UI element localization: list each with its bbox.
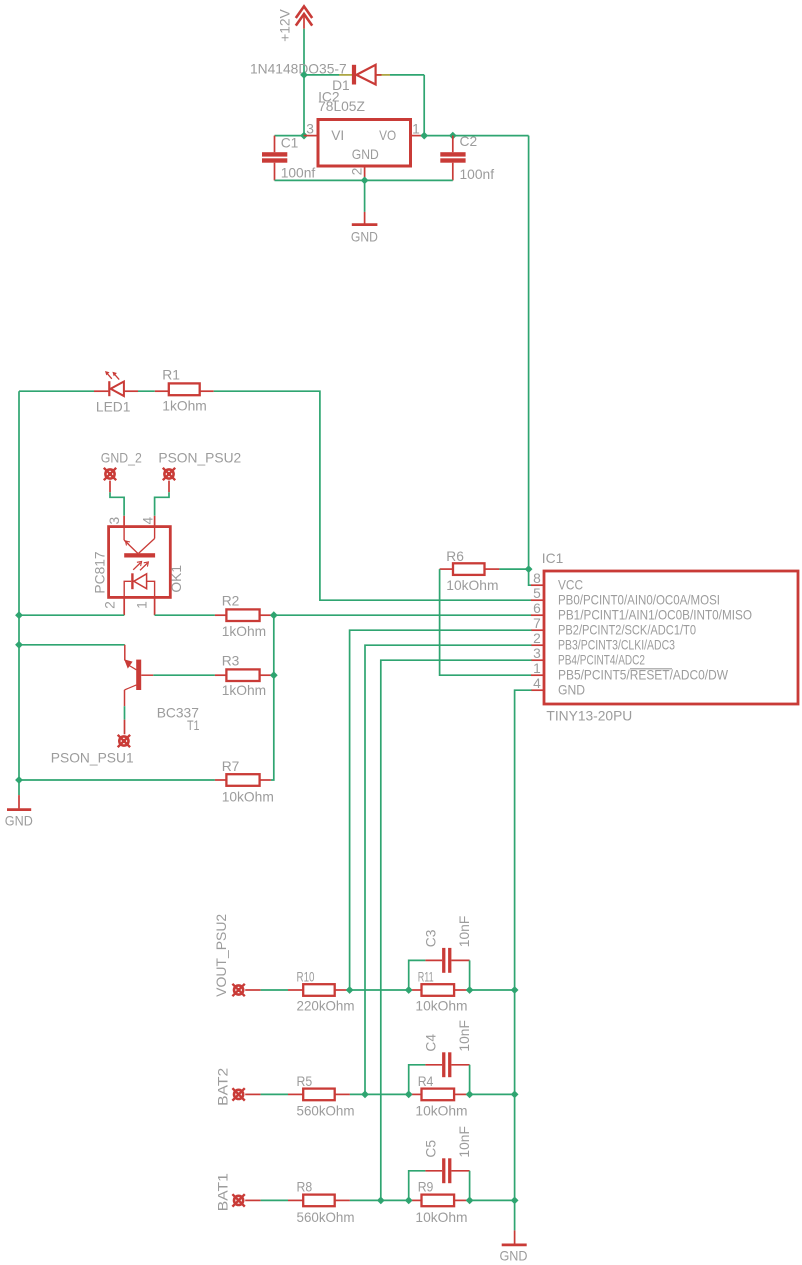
node junction R5/PB3 [361,1091,369,1099]
wire rail to T1 [19,644,125,646]
svg-text:BAT2: BAT2 [216,1068,231,1106]
svg-text:PB1/PCINT1/AIN1/OC0B/INT0/MISO: PB1/PCINT1/AIN1/OC0B/INT0/MISO [558,607,752,622]
wire PB3 to BAT2 [365,645,532,1094]
node junction +12V/D1 [300,71,308,79]
svg-text:5: 5 [533,586,541,601]
wire PB4 to BAT1 [381,660,532,1200]
svg-text:PB4/PCINT4/ADC2: PB4/PCINT4/ADC2 [558,652,645,667]
pin 6 PB1 [531,601,752,622]
svg-text:10nF: 10nF [457,916,472,948]
resistor R2 [215,594,274,639]
svg-text:220kOhm: 220kOhm [297,998,355,1013]
svg-text:2: 2 [533,631,541,646]
svg-text:PSON_PSU1: PSON_PSU1 [51,751,134,766]
svg-text:3: 3 [306,122,314,137]
svg-text:1: 1 [412,122,420,137]
node junction R11 right [466,986,474,994]
resistor R4 [409,1074,470,1119]
svg-text:10kOhm: 10kOhm [222,790,274,805]
pin 4 GND [531,676,585,697]
svg-text:100nf: 100nf [460,167,495,182]
svg-text:R10: R10 [297,969,315,984]
svg-text:GND: GND [352,147,379,162]
wire C1/C2 bottom row [275,179,453,181]
pad PSON_PSU1 [51,720,134,766]
wire R2 to PB1 [274,614,532,616]
wire R5 to R4 [350,1093,409,1095]
capacitor C1 [262,135,315,180]
node junction GND row [361,177,369,185]
ground bottom [500,1230,528,1263]
wire +12V down [303,29,305,75]
ground left rail [5,795,33,828]
wire VOUT_PSU2 to R10 [261,989,288,991]
svg-text:C5: C5 [423,1140,438,1158]
pin 3 PB4 [531,646,645,667]
svg-text:LED1: LED1 [96,399,131,414]
node junction R9 left [405,1197,413,1205]
svg-text:1kOhm: 1kOhm [222,683,266,698]
wire R1 to PB0 [214,391,532,600]
wire BAT2 to R5 [261,1093,288,1095]
svg-text:R7: R7 [222,759,240,774]
svg-text:R8: R8 [297,1180,313,1195]
wire LED to R1 [138,390,155,392]
pad BAT1 [216,1173,261,1211]
svg-text:R4: R4 [418,1074,434,1089]
node junction C2 top [449,132,457,140]
svg-text:10kOhm: 10kOhm [446,578,498,593]
resistor R8 [288,1180,355,1225]
wire rail to LED [19,390,94,392]
svg-text:GND: GND [558,682,585,697]
wire +12V to VI pin [303,75,305,136]
node junction VI row [300,132,308,140]
svg-text:OK1: OK1 [169,565,184,593]
resistor R1 [155,368,214,414]
wire VI row left [275,135,304,137]
wire VO row right [424,135,528,137]
pin 2 PB3 [531,631,675,652]
svg-text:10nF: 10nF [457,1020,472,1052]
svg-text:T1: T1 [187,718,200,733]
pin 5 PB0 [531,586,720,607]
node junction R3 [270,671,278,679]
node junction rail R7 [15,776,23,784]
optocoupler OK1 PC817 [92,516,184,615]
wire GND_2 to pin3 [110,492,124,516]
svg-text:+12V: +12V [277,8,292,41]
wire R2 to R3 vertical [273,615,275,675]
svg-text:R5: R5 [297,1074,313,1089]
capacitor C2 [440,134,494,182]
node junction rail T1 [15,641,23,649]
svg-text:3: 3 [107,517,122,525]
wire D1 cathode to VO [390,74,424,76]
svg-text:BAT1: BAT1 [216,1173,231,1211]
node junction R9 right [466,1197,474,1205]
svg-text:4: 4 [140,517,155,525]
svg-text:VCC: VCC [558,577,583,592]
svg-text:VO: VO [379,128,396,143]
pin 8 VCC [531,571,583,592]
wire R4 to GND net [470,1093,515,1095]
svg-text:GND_2: GND_2 [101,450,142,465]
node junction R4 left [405,1091,413,1099]
wire OK1 pin1 to R2 [155,614,215,616]
resistor R6 [440,549,500,593]
capacitor C3 [409,916,472,990]
svg-text:2: 2 [350,168,365,176]
wire BAT1 to R8 [261,1199,288,1201]
svg-text:GND: GND [351,230,378,245]
svg-text:GND: GND [500,1249,528,1264]
wire R11 to GND net [470,989,515,991]
pad VOUT_PSU2 [214,914,260,997]
wire PB2 to R10 [350,630,532,990]
resistor R5 [288,1074,355,1119]
node junction R2 [270,611,278,619]
svg-text:1kOhm: 1kOhm [222,624,266,639]
resistor R7 [215,759,274,805]
svg-text:VOUT_PSU2: VOUT_PSU2 [214,914,229,997]
wire left rail [18,391,20,795]
wire T1 collector to R3 [153,674,215,676]
svg-text:PB5/PCINT5/RESET/ADC0/DW: PB5/PCINT5/RESET/ADC0/DW [558,667,728,682]
svg-text:1kOhm: 1kOhm [162,398,206,413]
svg-text:R9: R9 [418,1180,434,1195]
node junction GND net row1 [511,986,519,994]
svg-text:100nf: 100nf [281,165,316,180]
svg-text:C4: C4 [423,1034,438,1052]
node junction R11 left [405,986,413,994]
svg-text:IC1: IC1 [542,551,563,566]
wire R6 left to pin1 [440,569,532,675]
svg-text:R1: R1 [162,368,180,383]
wire VCC long vertical [528,136,530,569]
wire pin4 GND net [515,690,532,1230]
svg-text:78L05Z: 78L05Z [318,99,365,114]
IC IC1 TINY13-20PU [542,551,798,723]
pad GND_2 [101,450,142,492]
power +12V [277,6,312,41]
node junction R6/VCC [525,565,533,573]
svg-text:PSON_PSU2: PSON_PSU2 [158,450,241,465]
wire R6 to VCC junction [499,568,528,570]
pad BAT2 [216,1068,261,1106]
wire rail to R7 [19,779,215,781]
wire junction to pin8 [529,569,532,585]
wire T1 emitter [124,706,126,720]
resistor R9 [409,1180,470,1225]
node junction R10/PB2 [346,986,354,994]
svg-text:PB2/PCINT2/SCK/ADC1/T0: PB2/PCINT2/SCK/ADC1/T0 [558,622,696,637]
transistor T1 BC337 [124,645,199,733]
node junction R4 right [466,1091,474,1099]
voltage regulator IC2 78L05Z [304,89,425,180]
wire D1 anode branch [304,74,340,76]
resistor R10 [288,969,355,1013]
node junction R8/PB4 [377,1197,385,1205]
diode D1 [250,62,390,94]
pad PSON_PSU2 [158,450,241,492]
wire GND drop [364,180,366,212]
svg-text:C3: C3 [423,929,438,947]
wire down to VO row [423,75,425,136]
svg-text:1: 1 [134,601,149,609]
wire R8 to R9 [350,1199,409,1201]
ground below IC2 [351,212,378,245]
svg-text:560kOhm: 560kOhm [297,1104,355,1119]
svg-text:560kOhm: 560kOhm [297,1210,355,1225]
svg-text:R11: R11 [418,969,434,984]
node junction GND net row3 [511,1197,519,1205]
svg-text:10kOhm: 10kOhm [415,1104,467,1119]
resistor R11 [409,969,470,1013]
svg-text:10kOhm: 10kOhm [415,998,467,1013]
svg-text:1: 1 [533,661,541,676]
svg-text:R3: R3 [222,653,240,668]
resistor R3 [215,653,274,698]
node junction GND net row2 [511,1091,519,1099]
svg-text:PB0/PCINT0/AIN0/OC0A/MOSI: PB0/PCINT0/AIN0/OC0A/MOSI [558,592,720,607]
pin 1 PB5 [531,661,728,682]
pin 7 PB2 [531,616,696,637]
node junction rail pin2 [15,611,23,619]
node junction VO [420,132,428,140]
LED LED1 [94,371,138,414]
svg-text:10nF: 10nF [457,1126,472,1158]
svg-text:C1: C1 [281,135,299,150]
wire R10 to R11 [350,989,409,991]
svg-text:6: 6 [533,601,541,616]
svg-text:10kOhm: 10kOhm [415,1210,467,1225]
svg-text:R2: R2 [222,594,240,609]
svg-text:7: 7 [533,616,541,631]
svg-text:3: 3 [533,646,541,661]
svg-text:PB3/PCINT3/CLKI/ADC3: PB3/PCINT3/CLKI/ADC3 [558,637,675,652]
capacitor C5 [409,1126,472,1200]
wire PSON_PSU2 to pin4 [155,492,169,516]
wire rail to OK1 pin2 [19,614,124,616]
svg-text:4: 4 [533,676,541,691]
svg-text:GND: GND [5,813,33,828]
wire R3 to R7 vertical [271,675,274,780]
svg-text:C2: C2 [460,134,478,149]
wire R9 to GND net [470,1199,515,1201]
svg-text:R6: R6 [446,549,464,564]
svg-text:VI: VI [331,128,344,143]
svg-text:PC817: PC817 [92,551,107,593]
svg-text:TINY13-20PU: TINY13-20PU [546,708,632,723]
svg-text:8: 8 [533,571,541,586]
svg-text:1N4148DO35-7: 1N4148DO35-7 [250,62,347,77]
svg-text:2: 2 [103,601,118,609]
capacitor C4 [409,1020,472,1094]
